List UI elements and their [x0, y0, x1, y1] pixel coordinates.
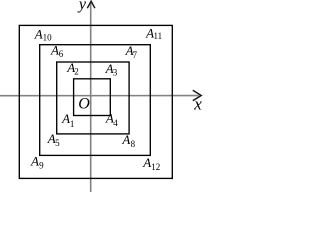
x-axis arrowhead [193, 90, 201, 101]
point label A7 [125, 43, 138, 60]
square outermost [19, 25, 172, 178]
point label A9 [30, 153, 44, 170]
svg-text:O: O [78, 95, 90, 112]
svg-text:A: A [142, 155, 151, 170]
point label A11 [145, 25, 162, 41]
svg-text:y: y [77, 0, 87, 13]
point label A10 [34, 27, 52, 43]
point label A2 [66, 60, 79, 77]
square A5A6A7A8 [57, 62, 129, 134]
y-axis [90, 2, 92, 192]
svg-text:A: A [61, 111, 70, 126]
point label A12 [142, 155, 160, 172]
svg-text:A: A [34, 27, 43, 42]
point label A4 [105, 111, 118, 128]
point label A5 [47, 131, 60, 148]
svg-text:3: 3 [113, 67, 118, 77]
svg-text:7: 7 [133, 50, 138, 60]
svg-text:A: A [50, 43, 59, 58]
y-axis arrowhead [87, 1, 95, 8]
square A1A2A3A4 (innermost) [74, 79, 111, 116]
svg-text:9: 9 [39, 161, 44, 171]
svg-text:6: 6 [59, 49, 64, 59]
square A9A10A11A12 [40, 45, 151, 156]
svg-text:1: 1 [70, 119, 75, 129]
svg-text:A: A [121, 132, 130, 147]
point label A6 [50, 43, 64, 59]
svg-text:4: 4 [113, 118, 118, 128]
svg-text:A: A [30, 153, 39, 168]
svg-text:2: 2 [74, 67, 79, 77]
svg-text:5: 5 [55, 138, 60, 148]
point label A1 [61, 111, 74, 129]
svg-text:8: 8 [131, 139, 136, 149]
svg-text:10: 10 [43, 33, 53, 43]
svg-text:12: 12 [151, 162, 160, 172]
point label A8 [121, 132, 135, 149]
svg-text:x: x [193, 95, 202, 114]
x-axis [0, 95, 199, 97]
svg-text:11: 11 [154, 31, 163, 41]
point label A3 [105, 61, 118, 77]
